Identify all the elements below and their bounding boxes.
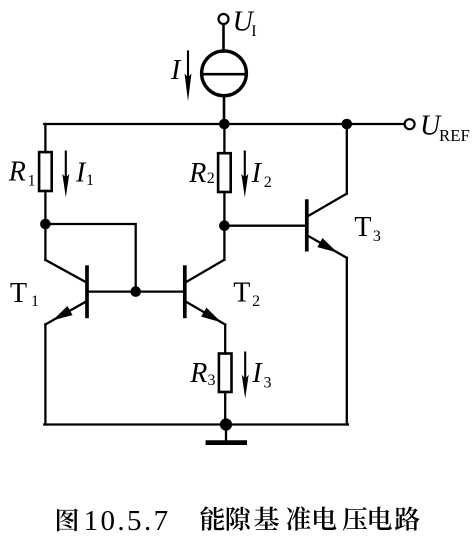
junction node: source/rail	[219, 119, 230, 130]
label R3	[189, 358, 215, 389]
label R2	[188, 158, 215, 189]
label T1	[10, 278, 39, 310]
arrow: current I3	[242, 352, 249, 399]
junction node: ground rail	[220, 418, 232, 430]
arrow: current I1	[62, 151, 69, 198]
label I1	[75, 157, 94, 189]
wire: R1 to T1 collector	[44, 191, 46, 260]
wire: source to rail	[223, 96, 226, 124]
svg-text:T: T	[354, 212, 371, 243]
arrow: current I	[185, 50, 192, 101]
resistor R3	[219, 354, 232, 393]
wire: T1 emitter down	[44, 324, 46, 424]
transistor T3	[305, 194, 347, 258]
svg-text:I: I	[251, 23, 256, 40]
svg-text:1: 1	[31, 293, 39, 310]
terminal U_I	[219, 14, 229, 24]
wire: bottom rail	[44, 423, 348, 425]
wire: top rail	[44, 123, 404, 125]
transistor T1	[45, 260, 88, 325]
label I2	[251, 158, 272, 191]
junction node: R1/bases	[40, 219, 51, 230]
label T2	[233, 278, 260, 310]
junction node: rail/T3	[342, 119, 353, 130]
resistor R2	[218, 153, 231, 192]
junction node: base join	[130, 286, 141, 297]
caption: 图 10.5.7	[57, 509, 78, 532]
svg-text:3: 3	[208, 372, 216, 389]
terminal U_REF	[405, 119, 415, 129]
svg-text:I: I	[170, 55, 182, 86]
wire: base rail T1-T2	[88, 290, 184, 292]
resistor R1	[39, 152, 52, 191]
svg-text:R: R	[8, 157, 26, 188]
svg-text:1: 1	[28, 172, 36, 189]
arrow: current I2	[241, 151, 248, 198]
wire: rail to T3 collector	[346, 124, 348, 194]
svg-text:I: I	[251, 358, 263, 389]
label I3	[251, 358, 271, 392]
transistor T2	[183, 260, 225, 325]
svg-text:R: R	[189, 358, 207, 389]
wire: U_I stem	[222, 24, 225, 51]
label R1	[8, 157, 36, 190]
svg-text:T: T	[10, 278, 27, 309]
label U_I	[233, 6, 257, 40]
junction node: R2/T3 base	[219, 220, 230, 231]
svg-text:R: R	[188, 158, 206, 189]
svg-text:1: 1	[86, 172, 94, 189]
ground	[208, 425, 245, 443]
svg-text:2: 2	[264, 174, 272, 191]
svg-text:REF: REF	[439, 126, 470, 145]
wire: T2 emitter to R3	[224, 325, 226, 354]
svg-text:3: 3	[264, 375, 272, 392]
svg-text:3: 3	[373, 228, 381, 245]
wire: rail to R2	[223, 124, 225, 153]
wire: T3 emitter down	[346, 258, 348, 425]
wire: R1 bottom to bases	[45, 224, 135, 292]
caption: 能隙基准电压电路	[200, 506, 224, 530]
wire: R3 to ground rail	[224, 392, 226, 425]
wire: R2 to T2 collector	[223, 192, 225, 260]
svg-text:10.5.7: 10.5.7	[84, 505, 171, 537]
wire: T3 base	[224, 225, 305, 227]
svg-text:T: T	[233, 278, 250, 309]
svg-text:I: I	[251, 158, 263, 189]
label T3	[354, 212, 381, 245]
wire: rail to R1	[44, 124, 46, 152]
svg-text:2: 2	[207, 170, 215, 187]
current source I	[202, 51, 247, 96]
svg-text:2: 2	[252, 293, 260, 310]
label U_REF	[420, 110, 470, 145]
